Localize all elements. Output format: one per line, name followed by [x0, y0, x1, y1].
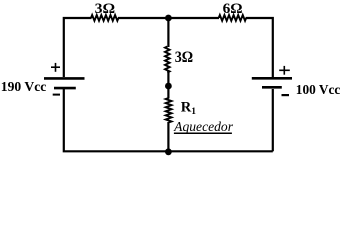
battery V1 plus sign: [51, 63, 60, 72]
wire right lower segment: [272, 89, 274, 151]
wire top-right segment: [246, 18, 273, 77]
wire top-left segment: [64, 18, 92, 77]
node junction middle: [165, 83, 172, 90]
battery V1 short plate (-): [54, 87, 76, 90]
svg-text:6Ω: 6Ω: [223, 1, 243, 17]
wire left lower segment: [64, 89, 273, 151]
battery V2 minus sign: [282, 94, 290, 96]
battery V2 long plate (+): [252, 77, 292, 80]
resistor 6ohm zigzag: [219, 15, 247, 21]
node junction top: [165, 15, 172, 22]
battery V2 plus sign: [279, 66, 290, 75]
svg-text:100 Vcc: 100 Vcc: [296, 82, 341, 97]
wire middle branch between resistors: [167, 72, 169, 99]
underline Aquecedor: [174, 132, 232, 134]
svg-text:3Ω: 3Ω: [95, 1, 116, 17]
resistor R1 vertical zigzag: [166, 98, 172, 123]
svg-text:Aquecedor: Aquecedor: [173, 119, 234, 134]
battery V1 minus sign: [53, 94, 60, 96]
svg-text:3Ω: 3Ω: [175, 49, 193, 66]
resistor 3ohm middle vertical zigzag: [165, 47, 170, 73]
battery V2 short plate (-): [262, 86, 282, 89]
wire middle branch upper: [167, 18, 169, 47]
battery V1 long plate (+): [44, 77, 85, 80]
wire top-middle segment: [118, 17, 219, 19]
node junction bottom: [165, 148, 172, 155]
wire middle branch lower: [167, 122, 169, 151]
resistor 3ohm top zigzag: [91, 15, 119, 21]
svg-text:190 Vcc: 190 Vcc: [1, 79, 47, 94]
